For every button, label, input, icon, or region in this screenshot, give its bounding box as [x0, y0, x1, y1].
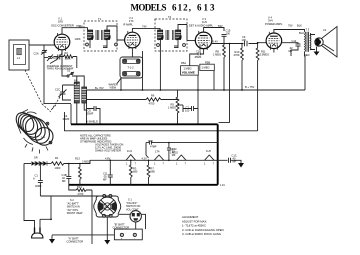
wire V3 plate to C9 to V4 grid	[212, 43, 244, 45]
resistor R11 3.3MEG	[256, 42, 269, 131]
svg-text:3.3MEG: 3.3MEG	[260, 53, 270, 57]
volume pot R5	[176, 90, 183, 124]
svg-text:100K: 100K	[65, 57, 71, 61]
trimmer C2C	[55, 85, 77, 100]
svg-text:MF: MF	[172, 153, 176, 157]
svg-text:OHMS-VOLT METER: OHMS-VOLT METER	[95, 149, 121, 153]
filament 3V4	[170, 148, 187, 166]
svg-text:40MF: 40MF	[35, 184, 42, 188]
capacitor C1B filter	[62, 164, 72, 185]
ground speaker	[314, 47, 320, 56]
svg-text:MF: MF	[289, 49, 293, 53]
resistor R10 470K	[234, 43, 244, 90]
svg-text:MF: MF	[62, 179, 66, 183]
svg-text:1 MEG: 1 MEG	[168, 106, 176, 110]
S2 text	[67, 199, 83, 215]
capacitor C1A	[33, 164, 43, 197]
svg-text:0.4V: 0.4V	[213, 40, 219, 44]
tube V3 det audio	[189, 17, 214, 50]
trimmer C2B	[47, 55, 53, 62]
svg-text:1R5: 1R5	[58, 20, 63, 24]
svg-text:1U4: 1U4	[127, 149, 132, 153]
tuning gang physical drawing	[13, 109, 55, 153]
svg-text:C1B: C1B	[196, 49, 201, 53]
S1 text	[126, 199, 140, 212]
svg-text:CONNECTOR: CONNECTOR	[67, 240, 84, 244]
svg-text:1.4V: 1.4V	[220, 184, 225, 187]
svg-text:LS: LS	[323, 28, 326, 32]
svg-text:1T4: 1T4	[129, 19, 134, 23]
svg-text:R1: R1	[55, 156, 59, 160]
svg-text:R5B: R5B	[205, 60, 210, 64]
osc coil L2	[74, 76, 79, 103]
svg-text:470K: 470K	[234, 53, 240, 57]
volume control boxes	[181, 60, 215, 75]
svg-text:2700: 2700	[78, 192, 84, 196]
T2 secondary to V3 grid	[178, 25, 195, 41]
svg-text:VOLUME: VOLUME	[182, 71, 195, 75]
svg-text:B + 75V: B + 75V	[245, 85, 255, 89]
svg-text:L 1: L 1	[42, 135, 46, 139]
osc coil secondary	[82, 87, 87, 103]
thick vertical and bottom bus	[69, 124, 218, 185]
svg-text:BLU: BLU	[299, 31, 304, 35]
svg-text:3- C2B at 600KC ROCK GANG: 3- C2B at 600KC ROCK GANG	[182, 232, 221, 236]
svg-text:-: -	[134, 236, 135, 240]
vertical from SR to plug	[24, 164, 35, 228]
T3 primary bottom to B+ bus	[304, 52, 307, 90]
speaker LS	[310, 27, 337, 58]
wire antenna to V1 grid	[29, 44, 55, 46]
switch S2a contact	[67, 69, 74, 78]
T-1-2 trimmer box	[120, 57, 143, 78]
svg-text:C2C: C2C	[55, 88, 60, 92]
svg-text:IF AMPL: IF AMPL	[123, 23, 134, 27]
svg-text:DET & AUDIO AMPL: DET & AUDIO AMPL	[189, 23, 214, 27]
svg-text:1 MEG: 1 MEG	[213, 53, 221, 57]
svg-text:SR: SR	[34, 156, 38, 160]
filament 1U4	[126, 149, 137, 166]
T1 secondary to V2 grid	[107, 26, 125, 40]
C13 cap	[167, 142, 177, 161]
svg-text:4700: 4700	[149, 102, 155, 106]
svg-text:4.2V: 4.2V	[142, 156, 148, 160]
capacitor C11	[103, 160, 113, 185]
resistor R13	[68, 157, 90, 185]
trimmer capacitor C2D	[53, 54, 62, 61]
svg-text:R13: R13	[75, 157, 80, 161]
svg-text:78V: 78V	[79, 24, 84, 28]
resistor R1	[51, 156, 90, 170]
thin A- line	[65, 112, 258, 131]
IF transformer T1	[84, 17, 117, 51]
alignment text	[182, 215, 224, 236]
tube V4 power ampl	[265, 16, 283, 53]
capacitor C1C + ground	[229, 154, 245, 168]
svg-text:1000: 1000	[55, 166, 61, 170]
wire C2A down to gang	[44, 58, 71, 104]
svg-text:680: 680	[151, 170, 156, 174]
tube V1 osc-converter	[51, 17, 74, 52]
tube V2 IF ampl	[123, 16, 140, 49]
svg-text:C14: C14	[292, 39, 297, 43]
capacitor C6	[86, 106, 100, 124]
svg-text:1 MEG: 1 MEG	[202, 66, 210, 70]
bottom line y196	[40, 195, 106, 197]
V4 plate wire to T3, 75V	[274, 30, 305, 33]
C10 47MF and line to thick bus	[146, 139, 218, 158]
R6 4700	[87, 94, 179, 106]
capacitor C9 100	[242, 35, 248, 46]
R4 680 filament resistor	[129, 160, 137, 185]
filament bus	[90, 159, 228, 161]
svg-text:MF: MF	[103, 178, 107, 182]
svg-text:.05MF: .05MF	[194, 55, 202, 59]
svg-text:R14: R14	[77, 185, 82, 189]
svg-text:C1: C1	[35, 174, 39, 178]
loop antenna L1	[9, 40, 29, 70]
B batt connector	[130, 211, 141, 222]
resistor R14 2700	[69, 185, 92, 196]
note text	[80, 134, 123, 153]
svg-text:83V: 83V	[218, 24, 223, 28]
svg-text:B SHIELD: B SHIELD	[86, 120, 98, 124]
R7 680 filament resistor	[147, 160, 155, 185]
svg-text:VIEW: VIEW	[110, 85, 117, 89]
filament 1T4	[154, 149, 165, 165]
V1 plate wire to T1, 76V	[62, 28, 88, 35]
resistor R2 100K	[60, 51, 77, 61]
svg-text:T 3: T 3	[306, 28, 310, 32]
svg-text:OSC-CONVERTER: OSC-CONVERTER	[51, 24, 74, 28]
svg-text:47MF: 47MF	[150, 144, 157, 148]
svg-text:FRONT VIEW: FRONT VIEW	[67, 212, 83, 215]
filament 1U5	[204, 149, 215, 166]
output transformer T3	[299, 28, 311, 57]
AC plug	[32, 228, 44, 239]
B+ bus 70V	[87, 89, 306, 91]
svg-text:R2: R2	[65, 51, 69, 55]
svg-text:R6: R6	[151, 94, 155, 98]
svg-text:.05MF: .05MF	[86, 112, 94, 116]
svg-text:1U5: 1U5	[206, 149, 211, 153]
node wire down from grid network	[61, 50, 63, 57]
svg-text:A: A	[33, 177, 35, 181]
svg-text:74V: 74V	[142, 25, 147, 29]
svg-text:.05MF: .05MF	[62, 117, 70, 121]
SR rectifier line	[24, 163, 31, 165]
svg-text:R5A: R5A	[181, 61, 186, 65]
ground below plug area	[49, 235, 114, 244]
svg-text:4.8V: 4.8V	[105, 156, 111, 160]
capacitor C14	[282, 39, 301, 56]
B- shield bus (thick)	[70, 104, 72, 124]
svg-text:100K: 100K	[75, 37, 81, 41]
dashed gang coupling lines	[25, 70, 42, 104]
svg-text:T-1-2: T-1-2	[128, 66, 135, 70]
trimmer C2A	[34, 45, 48, 58]
resistor R8	[213, 36, 225, 90]
ground below S2	[106, 217, 108, 240]
capacitor C7 100	[183, 106, 198, 113]
svg-text:B+ 70V: B+ 70V	[95, 86, 104, 90]
battery box	[114, 229, 142, 240]
capacitor C1B coupling	[190, 49, 204, 66]
svg-text:1T4: 1T4	[155, 149, 160, 153]
svg-text:BLK: BLK	[297, 24, 302, 28]
svg-text:POWER AMPL: POWER AMPL	[265, 22, 283, 26]
svg-text:2 MEG: 2 MEG	[82, 160, 90, 164]
capacitor C15 100	[222, 29, 231, 46]
V3 plate, 83V	[204, 28, 224, 33]
svg-text:75V: 75V	[288, 24, 293, 28]
IF transformer T2	[155, 15, 187, 51]
wire from C9 junction down to bus corner	[219, 44, 230, 123]
V2 plate wire to T2, 74V	[132, 28, 160, 32]
svg-text:680: 680	[133, 170, 138, 174]
S2 switch front view	[94, 194, 121, 217]
svg-text:S2: S2	[67, 69, 71, 73]
V1 grid bottom components	[61, 50, 63, 54]
svg-text:100: 100	[242, 38, 247, 42]
svg-text:C2A: C2A	[34, 52, 39, 56]
